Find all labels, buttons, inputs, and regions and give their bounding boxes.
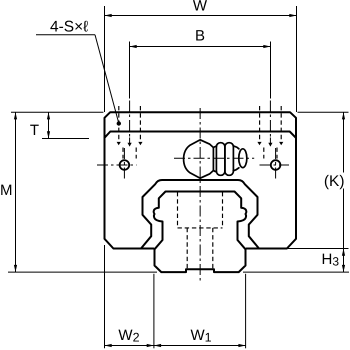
left tapped hole centerline bbox=[129, 101, 131, 137]
top extension line right for K bbox=[298, 111, 349, 113]
right tapped hole thread-depth marks bbox=[257, 142, 261, 145]
grease nipple horizontal centerline bbox=[174, 157, 254, 159]
left side hole centerlines bbox=[97, 164, 137, 166]
grease nipple tip end ellipse bbox=[239, 149, 247, 168]
leader 4-S×l underline bbox=[36, 34, 95, 36]
block outer body outline bbox=[105, 112, 297, 248]
svg-text:W2: W2 bbox=[118, 327, 139, 345]
right tapped hole pilot hidden lines bbox=[263, 148, 265, 159]
grease nipple hex head bbox=[184, 140, 214, 178]
dimension B line bbox=[130, 46, 271, 48]
right tapped hole centerline bbox=[269, 101, 271, 137]
svg-text:W1: W1 bbox=[191, 327, 212, 345]
H3 top extension line bbox=[288, 248, 349, 250]
bottom extension line (rail bottom datum) left bbox=[8, 271, 157, 273]
dimension M line bbox=[15, 112, 17, 272]
leader 4-S×l diagonal bbox=[95, 35, 119, 123]
W2/W1 middle extension line bbox=[153, 274, 155, 349]
svg-text:T: T bbox=[30, 122, 39, 139]
block vertical centerline bbox=[199, 108, 201, 282]
left tapped hole pilot hidden lines bbox=[122, 148, 124, 159]
T bottom extension line bbox=[42, 138, 89, 140]
rail outline bbox=[154, 192, 247, 273]
left side hole circle bbox=[120, 160, 130, 170]
block inner recess outline bbox=[141, 180, 259, 249]
svg-text:W: W bbox=[193, 0, 208, 15]
left tapped hole thread-depth marks bbox=[117, 142, 121, 145]
bottom extension line (rail bottom datum) right bbox=[243, 271, 349, 273]
right side hole centerlines bbox=[260, 164, 290, 166]
svg-text:M: M bbox=[0, 182, 12, 199]
dimension B extension lines bbox=[129, 42, 131, 99]
dimension W line bbox=[105, 15, 297, 17]
dimension K line bbox=[343, 112, 345, 272]
block end-plate parting line bbox=[105, 132, 296, 138]
dimension T line bbox=[48, 112, 50, 138]
leader 4-S×l dot bbox=[117, 121, 121, 125]
H3 arrows bbox=[342, 249, 345, 256]
right side hole circle bbox=[271, 160, 281, 170]
svg-text:B: B bbox=[195, 28, 205, 45]
dimension K label bbox=[323, 173, 346, 189]
dimension W2/W1 line bbox=[105, 345, 246, 347]
svg-text:4-S×ℓ: 4-S×ℓ bbox=[50, 19, 88, 36]
right tapped hole S hidden lines bbox=[259, 106, 261, 142]
grease nipple tip cone bbox=[233, 146, 239, 171]
grease nipple thread bead 1 bbox=[216, 143, 225, 176]
rail bolt hole hidden lines bbox=[186, 228, 188, 269]
top extension line left for T and M bbox=[11, 111, 103, 113]
left tapped hole S hidden lines bbox=[118, 106, 120, 142]
svg-text:(K): (K) bbox=[324, 173, 345, 190]
grease nipple neck valley bbox=[213, 146, 216, 172]
dimension W extension lines bbox=[104, 6, 106, 112]
W1 right extension line bbox=[245, 274, 247, 349]
grease nipple thread bead 2 bbox=[225, 143, 234, 176]
rail counterbore hidden lines bbox=[177, 192, 179, 228]
W2 left extension line bbox=[104, 245, 106, 348]
svg-text:H3: H3 bbox=[322, 251, 340, 269]
